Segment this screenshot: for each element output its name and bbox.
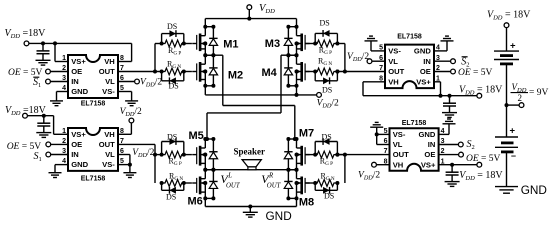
wire U3 OUT pin7	[118, 143, 155, 145]
diode DS4 (under RGN2)	[161, 183, 163, 190]
wire U3 pin1 drop	[53, 116, 55, 135]
terminal VDD U4	[477, 162, 482, 167]
terminal OE U2	[451, 69, 456, 74]
svg-text:EL7158: EL7158	[81, 176, 106, 183]
svg-text:VL: VL	[105, 150, 115, 159]
wire U2 VL pin6	[372, 60, 385, 62]
transistor M7	[300, 146, 303, 166]
svg-text:M5: M5	[189, 130, 204, 142]
wire U2 VS- pin5	[371, 50, 385, 52]
wire N3 M3 gate row	[305, 43, 315, 45]
wire U1 VL pin6	[118, 81, 135, 83]
op-amp driver U3 EL7158 (bottom-left) body	[68, 128, 118, 171]
svg-text:DS: DS	[322, 132, 332, 141]
wire U1 pin1 drop	[54, 43, 56, 61]
svg-text:M7: M7	[299, 127, 314, 139]
wire U2 OUT pin7	[336, 71, 385, 73]
svg-text:IN: IN	[423, 57, 431, 66]
ground U3 pin4	[49, 172, 62, 174]
wire U4 OE pin2	[439, 154, 459, 156]
diode DS3 (over RGP2)	[161, 142, 163, 155]
wire U4 VS+ pin1	[439, 164, 477, 166]
svg-text:VS-: VS-	[102, 87, 115, 96]
wire U3 VS- pin5	[118, 164, 130, 166]
terminal VDD/2 U3 VH	[129, 118, 134, 123]
wire U4 VS- pin5	[377, 133, 390, 135]
svg-text:DS: DS	[166, 193, 176, 202]
wire U2 VDD rail	[363, 95, 477, 97]
terminal VDD/2 U2 VL	[367, 59, 372, 64]
resistor RGP3	[315, 40, 336, 47]
svg-text:IN: IN	[428, 140, 436, 149]
svg-text:OE: OE	[71, 140, 82, 149]
transistor M2	[199, 62, 202, 82]
wire U4 VL pin6	[377, 144, 390, 146]
capacitor C4	[451, 165, 453, 172]
terminal OE U3	[46, 142, 51, 147]
wire M6 source drop	[204, 198, 206, 206]
wire U3 VDD rail	[27, 115, 53, 117]
svg-text:IN: IN	[71, 150, 79, 159]
speaker icon	[242, 160, 261, 167]
transistor M3	[300, 34, 303, 52]
svg-text:VS+: VS+	[71, 130, 86, 139]
svg-text:OUT: OUT	[267, 183, 282, 190]
svg-text:DS: DS	[322, 86, 332, 95]
svg-text:+: +	[510, 126, 516, 137]
wire VDD rail bridge	[248, 10, 250, 19]
wire ground rail	[205, 206, 296, 208]
svg-text:M2: M2	[228, 70, 243, 82]
wire node B (M3-M4 mid) to path B	[281, 54, 288, 56]
svg-text:GND: GND	[266, 209, 292, 223]
wire N2 gate bus vertical	[154, 144, 156, 183]
svg-text:VL: VL	[393, 140, 403, 149]
wire N3 M4 gate row	[305, 71, 315, 73]
wire U2 VS+ pin1	[434, 81, 441, 83]
svg-text:+: +	[510, 41, 516, 52]
svg-text:VS-: VS-	[388, 47, 401, 56]
transistor M4	[300, 62, 303, 82]
svg-text:= 9V: = 9V	[529, 88, 548, 98]
svg-text:M1: M1	[223, 38, 238, 50]
svg-text:OE = 5V: OE = 5V	[466, 154, 501, 164]
terminal VDD/2 battery	[519, 103, 524, 108]
svg-text:DS: DS	[320, 19, 330, 28]
wire M4 source drop	[296, 86, 298, 95]
resistor RGP2	[163, 151, 184, 158]
transistor M5	[199, 146, 202, 166]
svg-text:M8: M8	[299, 197, 314, 209]
wire path A	[222, 55, 224, 105]
svg-text:VL: VL	[105, 77, 115, 86]
wire U4 GND pin4	[439, 133, 449, 135]
wire M2 source drop	[204, 86, 206, 95]
wire U1 GND pin4	[57, 91, 69, 93]
svg-text:VH: VH	[104, 57, 115, 66]
svg-text:VH: VH	[104, 130, 115, 139]
svg-text:–: –	[511, 151, 516, 161]
ground U4 VL/VS- (inverted)	[370, 126, 383, 128]
terminal S1 U3	[46, 152, 51, 157]
svg-text:GND: GND	[521, 183, 547, 197]
terminal VDD top-left	[24, 41, 29, 46]
wire N1 gate bus vertical	[154, 44, 156, 72]
terminal S2bar U2	[451, 59, 456, 64]
svg-text:GND: GND	[71, 160, 88, 169]
wire U4 IN pin3	[439, 144, 459, 146]
terminal VDD/2 U4 VH	[372, 162, 377, 167]
svg-text:GND: GND	[71, 87, 88, 96]
battery B1	[494, 50, 519, 52]
resistor RGN4	[315, 180, 336, 187]
wire U1 VS- pin5	[118, 91, 132, 93]
svg-text:M3: M3	[265, 38, 280, 50]
wire N4 M8 gate row	[305, 182, 315, 184]
svg-text:VL: VL	[388, 57, 398, 66]
svg-text:VS+: VS+	[421, 160, 436, 169]
terminal OE U1	[46, 69, 51, 74]
diode DS8 (under RGN4)	[314, 183, 316, 190]
wire battery top lead	[506, 28, 508, 51]
diode DS1 (over RGP1)	[161, 34, 163, 44]
svg-text:M4: M4	[262, 67, 278, 79]
svg-text:OUT: OUT	[99, 140, 115, 149]
svg-text:OE: OE	[420, 67, 431, 76]
op-amp driver U1 EL7158 (top-left) body	[68, 55, 118, 98]
svg-text:VS-: VS-	[102, 160, 115, 169]
transistor M8	[300, 177, 303, 195]
wire U3 VL pin6	[118, 154, 130, 156]
ground battery	[495, 186, 518, 188]
svg-text:R: R	[268, 173, 274, 180]
terminal VDD U2	[477, 93, 482, 98]
wire N4 gate bus vertical	[344, 155, 346, 183]
svg-text:OE = 5V: OE = 5V	[458, 68, 493, 78]
wire N2 M5 gate row	[155, 154, 163, 156]
terminal S2 U4	[458, 142, 463, 147]
wire U4 OUT pin7	[336, 154, 390, 156]
svg-text:VH: VH	[388, 77, 399, 86]
svg-text:DS: DS	[167, 132, 177, 141]
wire U2 GND pin4	[434, 50, 447, 52]
capacitor C2	[43, 116, 45, 123]
svg-text:VS-: VS-	[393, 130, 406, 139]
wire N2 M6 gate row	[184, 182, 192, 184]
terminal S1bar U1	[46, 79, 51, 84]
wire battery bottom lead	[506, 152, 508, 186]
ground U3 pin5	[123, 172, 136, 174]
wire U1 pin8 VH drop	[131, 43, 133, 61]
svg-text:VH: VH	[393, 160, 404, 169]
wire N1 M1 gate row	[155, 43, 163, 45]
resistor RGN2	[163, 180, 184, 187]
svg-text:IN: IN	[71, 77, 79, 86]
svg-text:Speaker: Speaker	[234, 147, 266, 157]
wire path B	[280, 55, 282, 113]
svg-text:DS: DS	[169, 81, 179, 90]
resistor RGP1	[163, 40, 184, 47]
ground U2 pin5 (inverted)	[365, 40, 378, 42]
ground bottom-center	[249, 207, 251, 213]
terminal VDD/2 mid rail	[317, 93, 322, 98]
svg-text:M6: M6	[188, 196, 203, 208]
resistor RGN3	[315, 68, 336, 75]
wire U3 GND pin4	[55, 164, 68, 166]
svg-text:L: L	[227, 173, 232, 180]
battery B2	[495, 136, 518, 138]
ground U4 pin4 (inverted)	[443, 123, 456, 125]
resistor RGP4	[315, 151, 336, 158]
svg-text:GND: GND	[414, 47, 431, 56]
terminal battery top	[504, 23, 509, 28]
ground U1 pin4	[50, 100, 63, 102]
diode DS5 (over RGP3)	[314, 33, 316, 43]
wire VDD/2 mid rail	[205, 94, 316, 96]
wire node A (M1-M2 mid) to path A	[213, 54, 222, 56]
op-amp driver U2 EL7158 (top-right) body	[385, 45, 434, 89]
wire VDD rail U1	[29, 42, 132, 44]
svg-text:VS+: VS+	[71, 57, 86, 66]
svg-text:DS: DS	[167, 22, 177, 31]
ground U2 pin4 (inverted)	[441, 40, 454, 42]
wire U2 OE pin2	[434, 71, 451, 73]
capacitor C3	[449, 96, 451, 103]
svg-text:2: 2	[518, 93, 523, 103]
svg-text:OUT: OUT	[226, 183, 241, 190]
transistor M6	[199, 177, 202, 195]
wire U2 VH pin8	[363, 81, 385, 83]
diode DS6 (under RGN3)	[314, 72, 316, 81]
svg-text:EL7158: EL7158	[397, 34, 422, 41]
wire U1 OUT pin7	[118, 71, 163, 73]
resistor RGN1	[163, 68, 184, 75]
wire N1 M2 gate row	[184, 71, 192, 73]
diode DS2 (under RGN1)	[161, 72, 163, 81]
svg-text:OUT: OUT	[388, 67, 404, 76]
svg-text:OUT: OUT	[393, 150, 409, 159]
terminal OE U4	[459, 152, 464, 157]
svg-text:DS: DS	[324, 192, 334, 201]
ground U1 pin5	[125, 100, 138, 102]
transistor M1	[199, 34, 202, 52]
svg-text:GND: GND	[419, 130, 436, 139]
svg-text:EL7158: EL7158	[402, 120, 427, 127]
wire U2 IN pin3	[434, 60, 451, 62]
svg-text:OE: OE	[71, 67, 82, 76]
op-amp driver U4 EL7158 (bottom-right) body	[390, 128, 439, 171]
wire speaker rail VOUT	[213, 169, 288, 171]
terminal VDD bottom-left	[23, 113, 28, 118]
wire N4 M7 gate row	[305, 154, 315, 156]
wire battery mid	[506, 64, 508, 137]
terminal VDD/2 U1 VL	[135, 79, 140, 84]
svg-text:OUT: OUT	[99, 67, 115, 76]
wire U3 VH pin8	[130, 123, 132, 134]
wire M8 source drop	[296, 198, 298, 206]
diode DS7 (over RGP4)	[314, 142, 316, 155]
svg-text:VS+: VS+	[416, 77, 431, 86]
svg-text:OE: OE	[424, 150, 435, 159]
svg-text:EL7158: EL7158	[81, 101, 106, 108]
terminal VDD top-center	[247, 5, 252, 10]
wire N3 gate bus vertical	[344, 44, 346, 72]
wire U4 VH pin8	[376, 164, 389, 166]
capacitor C1	[42, 43, 44, 50]
wire battery mid tap	[507, 104, 520, 106]
